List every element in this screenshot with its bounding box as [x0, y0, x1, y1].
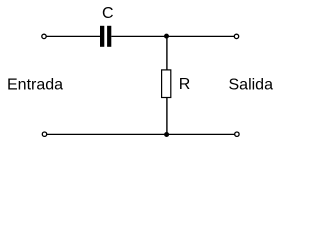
wire resistor to bottom junction: [166, 98, 168, 135]
node junction bottom: [164, 132, 169, 137]
terminal output bottom: [235, 132, 239, 136]
wire bottom: [47, 133, 235, 135]
svg-text:Entrada: Entrada: [7, 77, 63, 94]
svg-text:C: C: [102, 5, 114, 22]
wire junction to resistor: [166, 36, 168, 70]
terminal output top: [234, 34, 238, 38]
svg-text:R: R: [179, 76, 191, 93]
terminal input top: [42, 34, 46, 38]
svg-text:Salida: Salida: [229, 77, 274, 94]
node junction top: [164, 34, 169, 39]
wire C to output terminal: [111, 35, 234, 37]
terminal input bottom: [42, 132, 46, 136]
wire input top to C: [46, 35, 100, 37]
capacitor C: [100, 26, 111, 47]
resistor R: [162, 70, 171, 98]
